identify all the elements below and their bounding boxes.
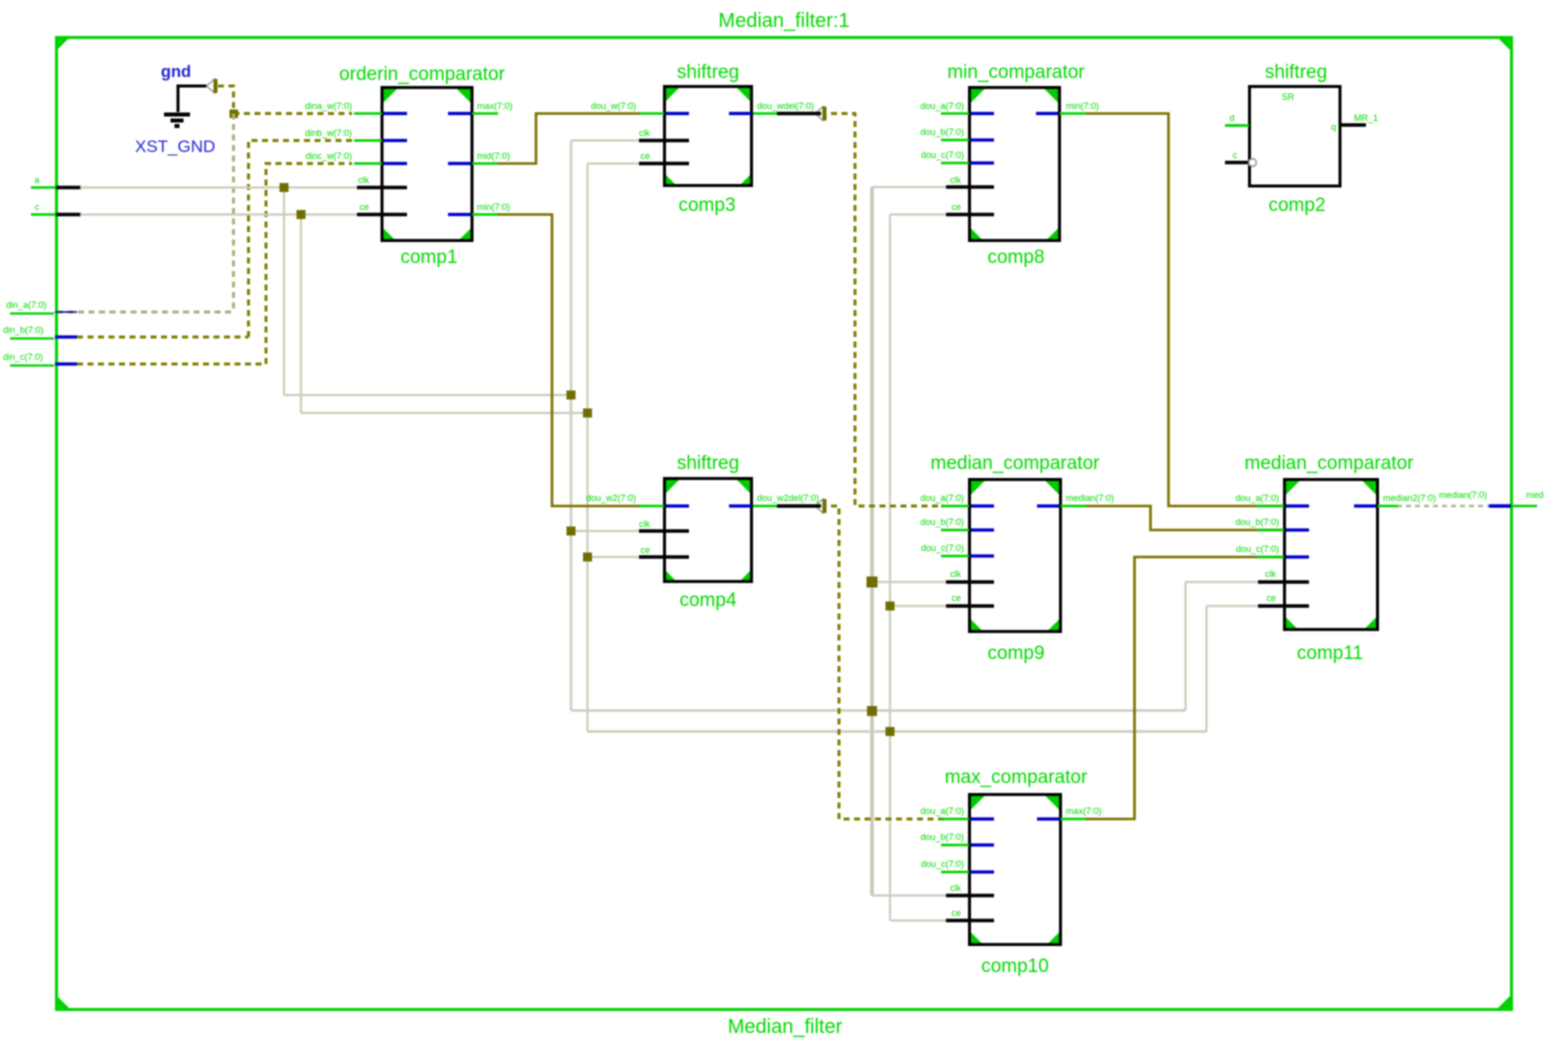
comp9 pin ce	[946, 604, 994, 608]
svg-text:a: a	[34, 175, 39, 185]
comp1 pin clk	[357, 186, 407, 190]
svg-text:ce: ce	[640, 151, 650, 161]
svg-text:dou_c(7:0): dou_c(7:0)	[921, 859, 964, 869]
comp8 pin dou_a(7:0)	[941, 112, 969, 115]
component comp4 shiftreg	[586, 453, 821, 611]
wire comp10 out -> comp11 in3 (olive)	[1085, 557, 1284, 819]
comp4 pin dou_w2del out	[729, 504, 752, 507]
comp11 pin clk	[1258, 580, 1309, 584]
svg-text:dina_w(7:0): dina_w(7:0)	[305, 101, 352, 111]
comp8 pin dou_b(7:0)	[941, 139, 969, 142]
svg-text:min_comparator: min_comparator	[947, 62, 1085, 83]
wire comp8 out -> comp11 in1 (olive)	[1085, 114, 1284, 507]
junction ce comp4	[583, 553, 592, 562]
junction gnd/din_a	[230, 110, 239, 119]
svg-text:median(7:0): median(7:0)	[1439, 490, 1487, 500]
port c (ce input)	[31, 202, 81, 215]
wire comp1 mid out -> comp3 in (olive)	[497, 114, 641, 164]
comp3 pin clk	[639, 139, 689, 143]
port din_b(7:0)	[3, 325, 77, 339]
svg-text:Median_filter: Median_filter	[728, 1016, 843, 1038]
svg-text:ce: ce	[1266, 593, 1276, 603]
svg-text:dou_w(7:0): dou_w(7:0)	[591, 101, 636, 111]
port a (clk input)	[31, 175, 81, 188]
comp4 pin dou_w2(7:0)	[639, 505, 664, 508]
svg-text:dou_b(7:0): dou_b(7:0)	[920, 127, 964, 137]
svg-text:comp8: comp8	[987, 247, 1044, 268]
svg-text:gnd: gnd	[161, 63, 191, 81]
comp1 pin max out	[448, 112, 471, 115]
bus tap comp4 out	[815, 499, 827, 513]
junction a->comp1	[280, 183, 289, 192]
comp2 pin q out	[1342, 123, 1367, 127]
comp10 pin dou_a(7:0)	[941, 818, 969, 821]
svg-text:comp1: comp1	[400, 247, 457, 268]
component comp11 median_comparator	[1235, 453, 1436, 664]
svg-text:comp4: comp4	[679, 590, 736, 611]
comp1 pin dina_w(7:0)	[354, 112, 382, 115]
svg-text:max_comparator: max_comparator	[945, 767, 1088, 788]
ground XST_GND	[135, 63, 215, 156]
junction clk mid-left	[567, 391, 576, 400]
svg-text:clk: clk	[950, 175, 961, 185]
comp3 pin dou_w(7:0)	[639, 112, 664, 115]
comp9 pin dou_a(7:0)	[941, 505, 969, 508]
svg-text:dou_w2(7:0): dou_w2(7:0)	[586, 493, 636, 503]
svg-text:din_b(7:0): din_b(7:0)	[3, 325, 44, 335]
svg-text:ce: ce	[951, 593, 961, 603]
comp1 pin dinb_w(7:0)	[354, 139, 382, 142]
component comp3 shiftreg	[591, 62, 821, 216]
svg-text:min(7:0): min(7:0)	[477, 202, 510, 212]
svg-text:dou_b(7:0): dou_b(7:0)	[920, 517, 964, 527]
svg-text:SR: SR	[1282, 92, 1295, 102]
svg-text:ce: ce	[951, 908, 961, 918]
svg-text:shiftreg: shiftreg	[677, 453, 739, 474]
comp1 pin min out	[448, 213, 471, 216]
junction ce comp9	[886, 602, 895, 611]
svg-text:dou_c(7:0): dou_c(7:0)	[921, 150, 964, 160]
svg-text:din_c(7:0): din_c(7:0)	[3, 352, 43, 362]
svg-text:comp11: comp11	[1297, 643, 1363, 664]
svg-text:c: c	[35, 202, 40, 212]
wire ce net (gray)	[80, 164, 1262, 921]
wire comp9 out -> comp11 in2 (olive)	[1085, 506, 1284, 530]
svg-text:clk: clk	[950, 883, 961, 893]
svg-text:dou_b(7:0): dou_b(7:0)	[920, 832, 964, 842]
svg-text:dou_wdel(7:0): dou_wdel(7:0)	[757, 101, 814, 111]
svg-text:shiftreg: shiftreg	[677, 62, 739, 83]
comp8 pin clk	[946, 185, 994, 189]
svg-text:comp2: comp2	[1268, 195, 1325, 216]
svg-text:orderin_comparator: orderin_comparator	[339, 64, 505, 85]
svg-text:median2(7:0): median2(7:0)	[1383, 493, 1436, 503]
component comp10 max_comparator	[920, 767, 1101, 977]
svg-text:dou_c(7:0): dou_c(7:0)	[1236, 544, 1279, 554]
comp10 pin dou_b(7:0)	[941, 844, 969, 847]
wire comp4 out bus -> comp10 in1 (dashed)	[831, 506, 944, 819]
wire gnd bus (dashed) to comp1 pin1	[218, 86, 352, 114]
wire clk net (gray)	[80, 141, 1262, 896]
port din_c(7:0)	[3, 352, 77, 366]
comp10 pin ce	[946, 919, 994, 923]
component comp2 shiftreg	[1225, 62, 1378, 216]
comp9 pin dou_c(7:0)	[941, 555, 969, 558]
junction clk lower	[867, 706, 877, 716]
svg-text:dou_a(7:0): dou_a(7:0)	[920, 101, 964, 111]
comp9 pin clk	[946, 580, 994, 584]
port median(7:0) right	[1439, 490, 1544, 506]
svg-text:mid(7:0): mid(7:0)	[477, 151, 510, 161]
comp9 pin median out	[1037, 504, 1059, 507]
svg-text:dinb_w(7:0): dinb_w(7:0)	[305, 128, 352, 138]
svg-text:q: q	[1331, 122, 1336, 132]
svg-text:dou_a(7:0): dou_a(7:0)	[920, 493, 964, 503]
svg-text:shiftreg: shiftreg	[1265, 62, 1327, 83]
svg-text:median_comparator: median_comparator	[1245, 453, 1415, 474]
comp8 pin ce	[946, 213, 994, 217]
comp4 pin ce	[639, 555, 689, 559]
svg-text:max(7:0): max(7:0)	[477, 101, 513, 111]
port din_a(7:0)	[6, 300, 77, 314]
wire din_a bus (pale dashed)	[57, 114, 234, 313]
junction c->comp1	[297, 210, 306, 219]
svg-text:max(7:0): max(7:0)	[1066, 806, 1102, 816]
svg-text:clk: clk	[358, 175, 369, 185]
svg-text:dou_a(7:0): dou_a(7:0)	[920, 806, 964, 816]
svg-text:clk: clk	[950, 569, 961, 579]
comp11 pin dou_b(7:0)	[1257, 529, 1284, 532]
svg-text:min(7:0): min(7:0)	[1066, 101, 1099, 111]
wire comp3 out bus -> comp9 in1 (dashed)	[831, 114, 944, 507]
bus tap at gnd	[207, 79, 218, 93]
svg-text:clk: clk	[639, 519, 650, 529]
comp8 pin dou_c(7:0)	[941, 162, 969, 165]
component comp1 orderin_comparator	[305, 64, 513, 268]
svg-text:dou_b(7:0): dou_b(7:0)	[1235, 517, 1279, 527]
comp11 pin dou_a(7:0)	[1257, 505, 1284, 508]
comp2 pin c (with bubble)	[1225, 161, 1248, 165]
junction clk comp9	[867, 577, 878, 588]
svg-text:MR_1: MR_1	[1354, 113, 1378, 123]
comp1 pin dinc_w(7:0)	[354, 162, 382, 165]
comp1 pin mid out	[448, 162, 471, 165]
comp10 pin dou_c(7:0)	[941, 871, 969, 874]
svg-text:comp9: comp9	[987, 643, 1044, 664]
bus tap comp3 out	[815, 107, 827, 121]
junction ce mid-left	[583, 409, 592, 418]
comp11 pin median out	[1354, 504, 1376, 507]
svg-text:XST_GND: XST_GND	[135, 137, 215, 156]
svg-text:median(7:0): median(7:0)	[1066, 493, 1114, 503]
svg-text:comp3: comp3	[678, 195, 735, 216]
wire din_c bus	[77, 164, 352, 365]
comp10 pin clk	[946, 894, 994, 898]
comp3 pin dou_wdel out	[729, 112, 752, 115]
svg-text:clk: clk	[1265, 569, 1276, 579]
svg-text:dou_c(7:0): dou_c(7:0)	[921, 543, 964, 553]
comp11 pin ce	[1258, 604, 1309, 608]
wire comp11 out -> median port (pale dashed)	[1397, 505, 1489, 508]
comp10 pin max out	[1037, 817, 1059, 820]
svg-text:ce: ce	[951, 202, 961, 212]
svg-text:median_comparator: median_comparator	[931, 453, 1101, 474]
svg-text:comp10: comp10	[981, 956, 1049, 977]
svg-text:Median_filter:1: Median_filter:1	[718, 10, 849, 32]
junction clk comp4	[567, 527, 576, 536]
svg-text:clk: clk	[639, 128, 650, 138]
comp8 pin min out	[1036, 112, 1058, 115]
svg-text:din_a(7:0): din_a(7:0)	[6, 300, 47, 310]
junction ce lower	[886, 727, 895, 736]
svg-text:dou_w2del(7:0): dou_w2del(7:0)	[757, 493, 819, 503]
component comp8 min_comparator	[920, 62, 1099, 268]
comp4 pin clk	[639, 529, 689, 533]
svg-text:d: d	[1229, 113, 1234, 123]
component comp9 median_comparator	[920, 453, 1114, 664]
svg-text:ce: ce	[359, 202, 369, 212]
svg-text:c: c	[1233, 150, 1238, 160]
comp9 pin dou_b(7:0)	[941, 529, 969, 532]
svg-text:ce: ce	[640, 545, 650, 555]
svg-text:med: med	[1526, 490, 1544, 500]
svg-text:dinc_w(7:0): dinc_w(7:0)	[305, 151, 352, 161]
comp11 pin dou_c(7:0)	[1257, 556, 1284, 559]
wire din_b bus	[77, 141, 352, 338]
wire comp1 low out -> comp4 in (olive)	[497, 215, 641, 507]
comp3 pin ce	[639, 162, 689, 166]
svg-text:dou_a(7:0): dou_a(7:0)	[1235, 493, 1279, 503]
comp1 pin ce	[357, 213, 407, 217]
comp2 pin d	[1225, 124, 1249, 127]
